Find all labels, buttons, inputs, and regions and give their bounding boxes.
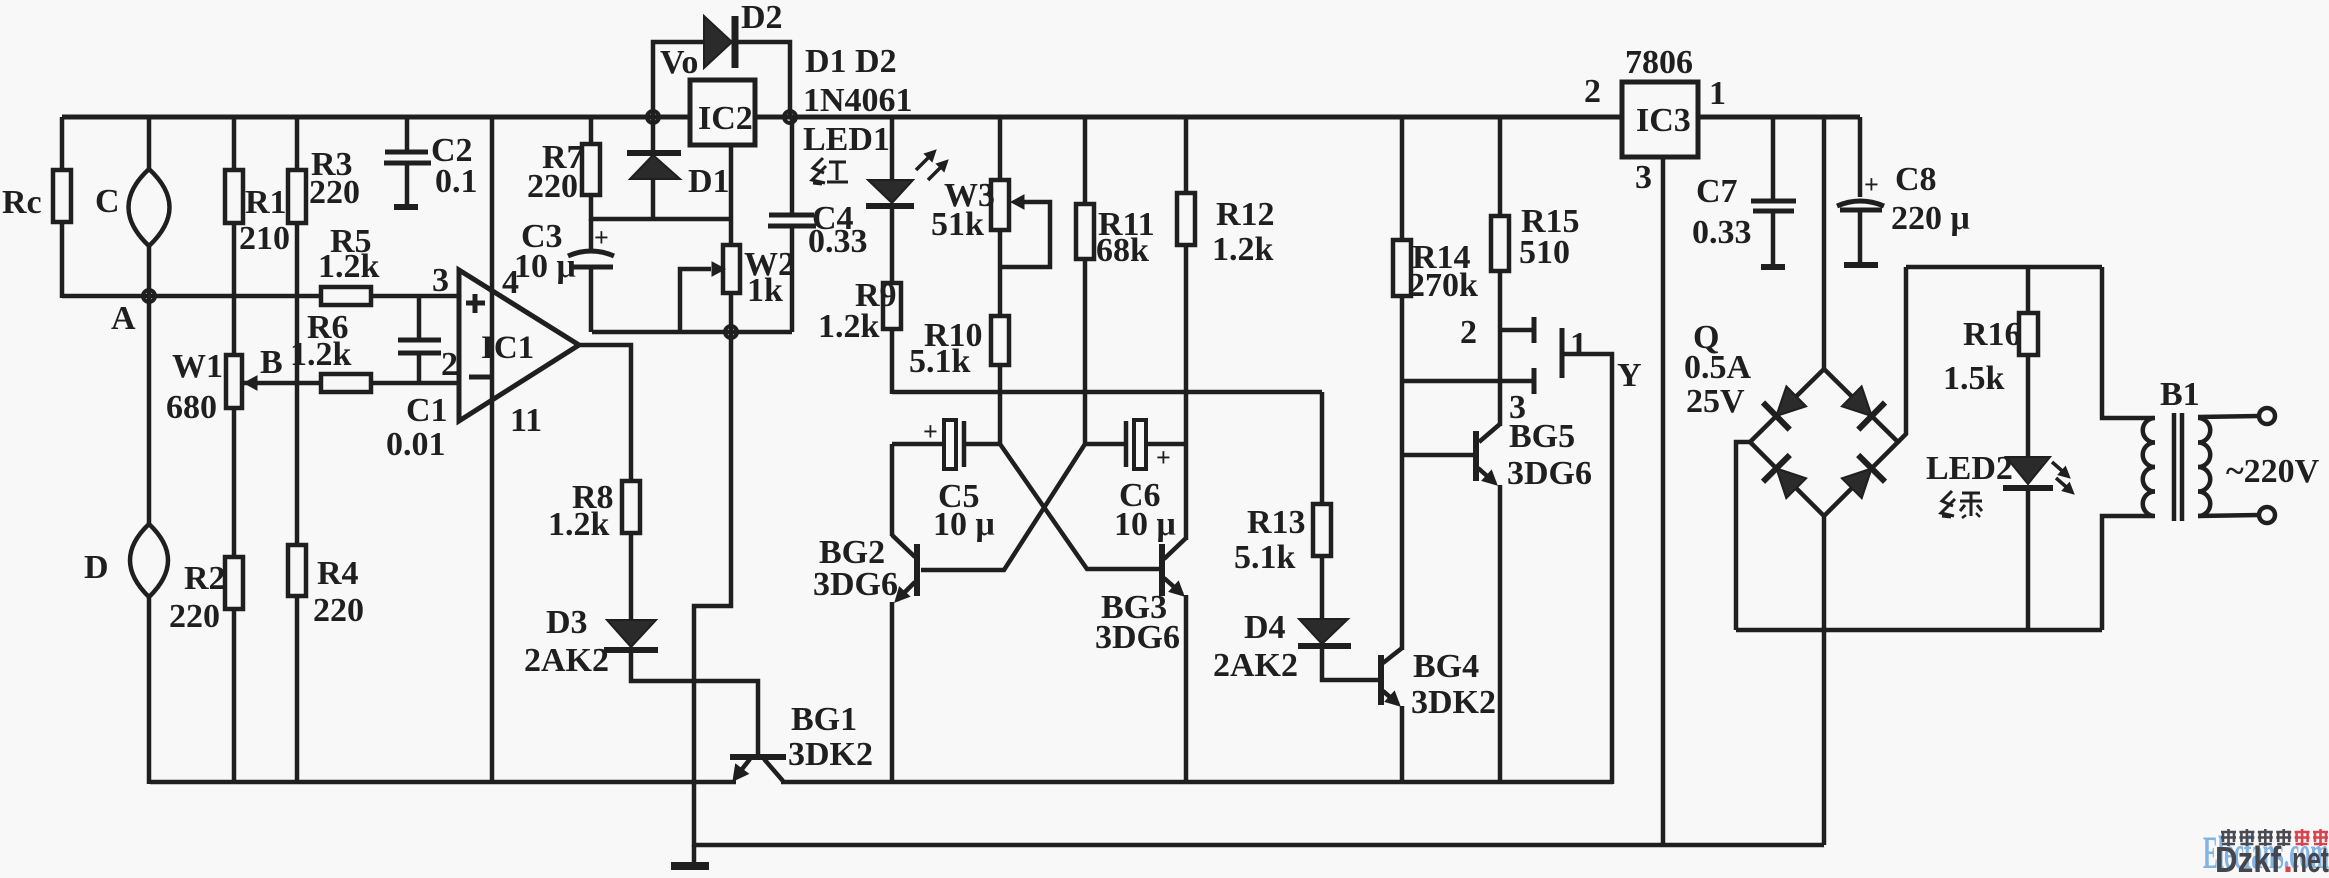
wire: C6 left lead bbox=[1085, 442, 1126, 447]
label 1.2k (R12) bbox=[1212, 231, 1274, 268]
regulator IC2 bbox=[690, 80, 755, 145]
label R16 bbox=[1963, 316, 2022, 353]
label 1.2k (R9) bbox=[818, 308, 880, 345]
wire: R15 top lead bbox=[1498, 117, 1503, 216]
svg-text:A: A bbox=[111, 300, 136, 337]
svg-text:R2: R2 bbox=[184, 560, 226, 597]
label R13 bbox=[1247, 504, 1306, 541]
wire: node A horizontal line bbox=[62, 294, 321, 299]
svg-text:220: 220 bbox=[169, 598, 220, 635]
wire: LED1 to R9 bbox=[890, 206, 895, 283]
label pin 3 (Y) bbox=[1509, 389, 1526, 426]
svg-text:B1: B1 bbox=[2160, 376, 2200, 413]
wire: lower ground rail bbox=[694, 843, 1824, 848]
svg-text:5.1k: 5.1k bbox=[1234, 539, 1296, 576]
label R4 bbox=[317, 555, 359, 592]
capacitor C5 (electrolytic) bbox=[923, 417, 964, 469]
label A bbox=[111, 300, 136, 337]
label R1 bbox=[245, 184, 287, 221]
resistor Rc bbox=[53, 170, 71, 222]
svg-text:10 μ: 10 μ bbox=[514, 248, 576, 285]
svg-text:IC3: IC3 bbox=[1636, 102, 1691, 139]
svg-text:68k: 68k bbox=[1096, 232, 1149, 269]
label 3DG6 (BG3) bbox=[1095, 619, 1180, 656]
wire: transformer primary bottom bbox=[2102, 516, 2154, 630]
LED LED1 bbox=[866, 180, 914, 206]
resistor R2 bbox=[225, 557, 243, 609]
wire: cross-couple C6 to BG2 base bbox=[921, 444, 1085, 570]
svg-text:Vo: Vo bbox=[660, 44, 698, 81]
label 220 (R7) bbox=[527, 168, 578, 205]
wire: Rc bottom lead bbox=[60, 222, 65, 298]
wire: BG2 emitter lead bbox=[890, 602, 895, 784]
svg-text:D3: D3 bbox=[546, 604, 588, 641]
diode D4 bbox=[1298, 619, 1351, 646]
label D3 bbox=[546, 604, 588, 641]
label LED1 bbox=[803, 121, 890, 158]
wire: LED2 bottom lead bbox=[2026, 488, 2031, 630]
label BG4 bbox=[1413, 648, 1479, 685]
label C4 bbox=[812, 200, 854, 237]
label R2 bbox=[184, 560, 226, 597]
svg-text:net: net bbox=[2292, 839, 2329, 873]
wire: R3 top lead bbox=[295, 117, 300, 170]
wire: bridge bottom column bbox=[1822, 516, 1827, 845]
junction: D2 anode tap on rail bbox=[647, 111, 659, 123]
svg-text:Dzkf: Dzkf bbox=[2215, 839, 2282, 873]
capacitor C7 bbox=[1751, 201, 1796, 267]
wire: D2 anode riser bbox=[653, 42, 705, 117]
label 0.33 (C4) bbox=[808, 223, 868, 260]
svg-text:5.1k: 5.1k bbox=[909, 343, 971, 380]
label 2AK2 (D4) bbox=[1213, 647, 1298, 684]
wire: R4 bottom lead bbox=[295, 596, 300, 784]
label W2 bbox=[744, 246, 795, 283]
label C bbox=[95, 183, 120, 220]
LED LED2 bbox=[2003, 457, 2053, 488]
wire: R6 to op-amp pin 2 bbox=[371, 381, 459, 386]
label 3DK2 (BG4) bbox=[1411, 684, 1496, 721]
label R10 bbox=[924, 317, 983, 354]
wire: C5 left lead bbox=[892, 442, 946, 447]
svg-text:220 μ: 220 μ bbox=[1891, 200, 1970, 237]
label: op-amp - input bbox=[469, 375, 490, 380]
label R12 bbox=[1216, 196, 1275, 233]
svg-text:1.2k: 1.2k bbox=[548, 506, 610, 543]
label R9 bbox=[855, 277, 897, 314]
wire: R10 node down to C5 right bbox=[998, 392, 1003, 446]
capacitor C8 (electrolytic) bbox=[1837, 117, 1884, 265]
wire: transformer primary top bbox=[2102, 267, 2154, 418]
wire: lamp loop top line bbox=[1906, 265, 2102, 270]
svg-text:0.1: 0.1 bbox=[435, 163, 478, 200]
svg-text:2AK2: 2AK2 bbox=[1213, 647, 1298, 684]
label B bbox=[260, 344, 283, 381]
svg-text:7806: 7806 bbox=[1625, 44, 1693, 81]
label: pin 4 bbox=[502, 264, 519, 301]
label Y bbox=[1617, 357, 1642, 394]
svg-text:1.2k: 1.2k bbox=[290, 336, 352, 373]
label pin 2 (Y) bbox=[1460, 314, 1477, 351]
svg-text:1: 1 bbox=[1709, 75, 1726, 112]
resistor R13 bbox=[1313, 504, 1331, 556]
label: IC1 bbox=[481, 330, 534, 366]
wire: bridge top column bbox=[1822, 117, 1827, 370]
svg-text:0.33: 0.33 bbox=[1692, 214, 1752, 251]
svg-text:1.5k: 1.5k bbox=[1943, 360, 2005, 397]
svg-text:25V: 25V bbox=[1686, 383, 1745, 420]
resistor R16 bbox=[2019, 313, 2038, 355]
label C2 bbox=[431, 132, 473, 169]
wire: C2 top lead bbox=[405, 117, 410, 152]
wire: R1 bottom to W1 bbox=[232, 223, 237, 355]
svg-text:D: D bbox=[84, 549, 109, 586]
svg-text:IC2: IC2 bbox=[698, 100, 753, 137]
wire: cross-couple C5 to BG3 base bbox=[1000, 444, 1160, 569]
LED1 light arrows bbox=[916, 150, 948, 180]
svg-text:C8: C8 bbox=[1895, 161, 1937, 198]
wire: R12 bottom to BG3 collector bbox=[1184, 245, 1189, 540]
label BG3 bbox=[1101, 589, 1167, 626]
sensor element D bbox=[130, 524, 168, 597]
potentiometer W1 bbox=[226, 355, 257, 408]
svg-text:+: + bbox=[1864, 170, 1879, 199]
wire: sensor D bottom lead bbox=[147, 596, 152, 784]
svg-text:R1: R1 bbox=[245, 184, 287, 221]
svg-text:LED1: LED1 bbox=[803, 121, 890, 158]
label 2AK2 (D3) bbox=[524, 642, 609, 679]
svg-text:R16: R16 bbox=[1963, 316, 2022, 353]
wire: oscillator supply node line bbox=[892, 390, 1322, 395]
wire: node line down to R13 bbox=[1320, 392, 1325, 505]
label 3DK2 (BG1) bbox=[788, 736, 873, 773]
wire: R7 bottom lead bbox=[589, 195, 594, 221]
label pin 1 (IC3) bbox=[1709, 75, 1726, 112]
capacitor C1 bbox=[398, 340, 441, 353]
wire: D4 to BG4 base bbox=[1322, 646, 1379, 680]
wire: D1 top lead bbox=[651, 117, 656, 152]
label W1 bbox=[172, 348, 223, 385]
resistor R8 bbox=[622, 481, 640, 533]
wire: R8 to D3 bbox=[629, 533, 634, 621]
label 1N4061 bbox=[803, 82, 913, 119]
label D1 D2 bbox=[805, 43, 897, 80]
wire: R5 to op-amp pin 3 bbox=[371, 294, 459, 299]
label 680 bbox=[166, 389, 217, 426]
label R8 bbox=[572, 479, 614, 516]
svg-text:10 μ: 10 μ bbox=[1114, 506, 1176, 543]
label R6 bbox=[307, 309, 349, 346]
svg-text:D4: D4 bbox=[1244, 609, 1286, 646]
wire: sensor C top lead bbox=[147, 117, 152, 170]
label BG2 bbox=[819, 534, 885, 571]
label R14 bbox=[1412, 239, 1471, 276]
wire: R13 to D4 bbox=[1320, 556, 1325, 620]
svg-text:210: 210 bbox=[239, 220, 290, 257]
label BG1 bbox=[791, 701, 857, 738]
wire: W2 node to ground column bbox=[694, 332, 731, 847]
label 3DG6 (BG2) bbox=[813, 566, 898, 603]
wire: R9 bottom lead bbox=[890, 329, 895, 394]
wire: R12 top lead bbox=[1184, 117, 1189, 193]
label 1.2k (R5) bbox=[318, 248, 380, 285]
svg-text:1.2k: 1.2k bbox=[1212, 231, 1274, 268]
wire: BG3 emitter lead bbox=[1184, 595, 1189, 784]
wire: C3/W2/C4 node line bbox=[592, 330, 792, 335]
label pin 3 (IC3) bbox=[1635, 159, 1652, 196]
wire: R2 bottom lead bbox=[232, 609, 237, 784]
wire: R1 top lead bbox=[232, 117, 237, 170]
bridge rectifier Q outline bbox=[1750, 369, 1898, 516]
wire: BG5 base lead bbox=[1402, 453, 1474, 458]
wire: R11 bottom to C6 left bbox=[1083, 259, 1088, 446]
svg-text:R12: R12 bbox=[1216, 196, 1275, 233]
wire: W2 wiper loop bbox=[680, 269, 711, 332]
svg-text:0.01: 0.01 bbox=[386, 426, 446, 463]
wire: C4 bottom lead bbox=[790, 226, 795, 332]
potentiometer W2 bbox=[712, 245, 740, 293]
wire: bridge left vertex down bbox=[1736, 442, 1750, 630]
label 51k bbox=[931, 206, 984, 243]
transistor BG2 (3DG6) bbox=[892, 444, 917, 602]
wire: W3 top lead bbox=[998, 117, 1003, 180]
svg-text:220: 220 bbox=[313, 592, 364, 629]
bridge diode top-left bbox=[1763, 386, 1806, 429]
label 10u (C6) bbox=[1114, 506, 1176, 543]
ground bbox=[671, 845, 709, 866]
label B1 bbox=[2160, 376, 2200, 413]
sensor element C bbox=[129, 169, 170, 246]
label 1.2k (R8) bbox=[548, 506, 610, 543]
wire: R3 bottom to R4 bbox=[295, 223, 300, 545]
label 25V bbox=[1686, 383, 1745, 420]
label 5.1k (R10) bbox=[909, 343, 971, 380]
label 1.5k (R16) bbox=[1943, 360, 2005, 397]
svg-text:W1: W1 bbox=[172, 348, 223, 385]
wire: C1 top lead bbox=[417, 296, 422, 340]
label: pin 3 bbox=[432, 262, 449, 299]
resistor R5 bbox=[321, 287, 371, 305]
label 220 (R3) bbox=[309, 174, 360, 211]
wire: BG5 emitter lead bbox=[1498, 485, 1503, 784]
regulator IC3 (7806) bbox=[1622, 82, 1698, 157]
label C8 bbox=[1895, 161, 1937, 198]
op-amp IC1 bbox=[459, 270, 579, 421]
transistor BG1 (3DK2) bbox=[730, 757, 786, 781]
bridge diode bottom-right bbox=[1842, 455, 1885, 498]
label 7806 bbox=[1625, 44, 1693, 81]
watermark: site name Chinese bbox=[2221, 829, 2328, 846]
wire: C4 top lead bbox=[790, 117, 795, 215]
label D1 bbox=[688, 163, 730, 200]
transformer B1 core bbox=[2174, 413, 2182, 521]
resistor R12 bbox=[1177, 193, 1195, 245]
label C1 bbox=[406, 392, 448, 429]
svg-text:10 μ: 10 μ bbox=[933, 506, 995, 543]
svg-text:2: 2 bbox=[1584, 73, 1601, 110]
svg-text:3: 3 bbox=[432, 262, 449, 299]
resistor R7 bbox=[582, 144, 600, 195]
svg-text:1.2k: 1.2k bbox=[318, 248, 380, 285]
svg-text:2AK2: 2AK2 bbox=[524, 642, 609, 679]
label 220 (R2) bbox=[169, 598, 220, 635]
label: pin 11 bbox=[510, 402, 542, 439]
svg-text:C7: C7 bbox=[1696, 173, 1738, 210]
label D4 bbox=[1244, 609, 1286, 646]
svg-text:+: + bbox=[594, 223, 609, 252]
svg-text:680: 680 bbox=[166, 389, 217, 426]
wire: R16 top lead bbox=[2026, 267, 2031, 313]
svg-text:R4: R4 bbox=[317, 555, 359, 592]
svg-text:+: + bbox=[923, 417, 938, 446]
svg-text:510: 510 bbox=[1519, 234, 1570, 271]
svg-text:D1 D2: D1 D2 bbox=[805, 43, 897, 80]
label: Chinese 'lu' (green) for LED2 bbox=[1941, 491, 1982, 518]
svg-text:3: 3 bbox=[1509, 389, 1526, 426]
label C5 bbox=[938, 478, 980, 515]
transistor BG4 (3DK2) bbox=[1381, 648, 1402, 706]
touch plate Y pin 3 bbox=[1402, 368, 1534, 394]
wire: C1 bottom lead bbox=[417, 353, 422, 383]
resistor R14 bbox=[1393, 240, 1411, 296]
wire: IC2 bottom pin to W2 bbox=[729, 145, 734, 247]
label 10u (C5) bbox=[933, 506, 995, 543]
svg-text:BG1: BG1 bbox=[791, 701, 857, 738]
diode D1 (zener) bbox=[627, 153, 681, 179]
label ~220V bbox=[2226, 453, 2320, 490]
junction: W2 bottom node bbox=[725, 326, 737, 338]
wire: node A down to sensor D bbox=[147, 296, 152, 525]
transistor BG5 (3DG6) bbox=[1476, 424, 1500, 485]
wire: R14 bottom / BG4 collector column bbox=[1400, 296, 1405, 650]
label C6 bbox=[1119, 477, 1161, 514]
svg-text:3: 3 bbox=[1635, 159, 1652, 196]
label pin 2 (IC3) bbox=[1584, 73, 1601, 110]
label R3 bbox=[311, 146, 353, 183]
label 210 bbox=[239, 220, 290, 257]
watermark: Dzkf.net bbox=[2215, 839, 2329, 878]
wire: D3 to BG1 base run bbox=[631, 650, 758, 756]
wire: secondary bottom terminal bbox=[2198, 507, 2275, 523]
label R11 bbox=[1098, 206, 1155, 243]
label LED2 bbox=[1926, 450, 2013, 487]
svg-text:270k: 270k bbox=[1408, 267, 1478, 304]
capacitor C2 bbox=[384, 152, 431, 207]
wire: C3 bottom lead bbox=[589, 267, 594, 332]
label R15 bbox=[1521, 203, 1580, 240]
wire: D2 cathode to rail bbox=[734, 42, 790, 117]
wire: IC3 pin 3 to ground rail bbox=[1661, 157, 1666, 845]
label 10u (C3) bbox=[514, 248, 576, 285]
svg-text:~220V: ~220V bbox=[2226, 453, 2320, 490]
resistor R1 bbox=[225, 170, 243, 223]
label C3 bbox=[521, 218, 563, 255]
wire: W3 bottom to R10 bbox=[998, 230, 1003, 316]
label D bbox=[84, 549, 109, 586]
wire: LED1 top lead bbox=[890, 117, 895, 181]
touch plate Y pin 2 bbox=[1500, 317, 1534, 343]
label 68k bbox=[1096, 232, 1149, 269]
resistor R10 bbox=[991, 316, 1009, 365]
wire: R10 bottom lead bbox=[998, 365, 1003, 394]
label: op-amp + input bbox=[466, 294, 485, 313]
transistor BG3 (3DG6) bbox=[1162, 538, 1186, 596]
svg-text:Rc: Rc bbox=[2, 184, 42, 221]
label 270k bbox=[1408, 267, 1478, 304]
label 0.5A bbox=[1684, 349, 1752, 386]
svg-text:0.5A: 0.5A bbox=[1684, 349, 1752, 386]
wire: BG4 emitter lead bbox=[1400, 706, 1405, 784]
label R7 bbox=[542, 139, 584, 176]
label R5 bbox=[330, 223, 372, 260]
wire: R15 bottom / BG5 collector column bbox=[1498, 271, 1503, 426]
label 0.33 (C7) bbox=[1692, 214, 1752, 251]
svg-text:1: 1 bbox=[1570, 326, 1587, 363]
wire: bridge output bottom line bbox=[1736, 628, 2102, 633]
capacitor C4 bbox=[768, 215, 816, 226]
label 3DG6 (BG5) bbox=[1507, 455, 1592, 492]
wire: secondary top terminal bbox=[2198, 408, 2275, 424]
transformer B1 secondary winding bbox=[2198, 418, 2210, 516]
svg-text:1.2k: 1.2k bbox=[818, 308, 880, 345]
wire: op-amp output bbox=[578, 345, 631, 481]
wire: W1 bottom to R2 bbox=[232, 408, 237, 557]
label W3 bbox=[944, 177, 995, 214]
label D2 bbox=[741, 0, 783, 36]
wire: op-amp power column pins 4-11 bbox=[490, 117, 495, 784]
svg-text:LED2: LED2 bbox=[1926, 450, 2013, 487]
svg-text:2: 2 bbox=[1460, 314, 1477, 351]
potentiometer W3 bbox=[991, 180, 1024, 230]
wire: W3 wiper loop bbox=[1000, 202, 1050, 267]
node A junction bbox=[143, 290, 155, 302]
wire: R7 top lead bbox=[589, 117, 594, 144]
svg-text:0.33: 0.33 bbox=[808, 223, 868, 260]
resistor R15 bbox=[1491, 216, 1509, 271]
junction: D2 cathode tap on rail bbox=[784, 111, 796, 123]
wire: R16 to LED2 bbox=[2026, 355, 2031, 458]
wire: R14 top lead bbox=[1400, 117, 1405, 240]
label Q bbox=[1693, 319, 1719, 356]
svg-text:220: 220 bbox=[527, 168, 578, 205]
wire: sensor C bottom lead bbox=[147, 245, 152, 296]
svg-text:11: 11 bbox=[510, 402, 542, 439]
touch plate Y pin 1 bbox=[1562, 328, 1612, 784]
resistor R4 bbox=[288, 545, 306, 596]
resistor R6 bbox=[321, 374, 371, 392]
wire: W1 wiper to R6 (node B) bbox=[244, 381, 321, 386]
label pin 1 (Y) bbox=[1570, 326, 1587, 363]
LED2 light arrows bbox=[2052, 462, 2074, 494]
wire: bridge right vertex up bbox=[1898, 267, 1906, 442]
diode D2 bbox=[704, 16, 735, 68]
svg-text:D2: D2 bbox=[741, 0, 783, 36]
wire: D1 bottom lead bbox=[651, 179, 656, 221]
resistor R9 bbox=[883, 283, 901, 329]
svg-text:3DG6: 3DG6 bbox=[1095, 619, 1180, 656]
svg-text:BG4: BG4 bbox=[1413, 648, 1479, 685]
label 0.1 bbox=[435, 163, 478, 200]
svg-text:3DG6: 3DG6 bbox=[813, 566, 898, 603]
svg-text:C: C bbox=[95, 183, 120, 220]
label 0.01 bbox=[386, 426, 446, 463]
wire: bottom rail left of BG1 bbox=[150, 780, 736, 785]
svg-text:+: + bbox=[1156, 443, 1171, 472]
label Vo bbox=[660, 44, 698, 81]
wire: W2 bottom lead bbox=[729, 293, 734, 334]
wire: Rc top lead bbox=[60, 117, 65, 170]
label 510 bbox=[1519, 234, 1570, 271]
